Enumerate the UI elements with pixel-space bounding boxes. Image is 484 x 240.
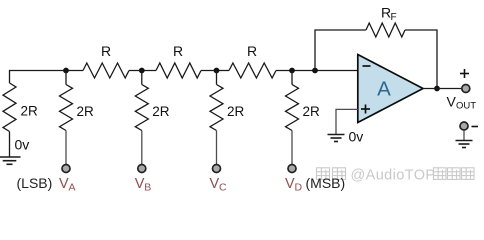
resistor 2R branch D <box>286 71 321 131</box>
ground op-amp 0v <box>328 135 345 142</box>
node C junction <box>214 68 220 74</box>
svg-text:A: A <box>377 77 391 100</box>
terminal VOUT minus <box>460 122 468 130</box>
svg-text:F: F <box>391 12 397 23</box>
svg-text:2R: 2R <box>152 104 170 119</box>
wire rail to op-amp inverting input <box>276 70 358 72</box>
wire 2R to ground <box>9 132 11 157</box>
svg-text:V: V <box>135 176 145 192</box>
resistor R2 <box>156 43 201 78</box>
label VOUT <box>447 94 477 112</box>
svg-text:R: R <box>247 43 257 59</box>
node output junction <box>434 86 440 92</box>
svg-text:V: V <box>447 94 457 110</box>
svg-text:(MSB): (MSB) <box>306 175 346 191</box>
resistor R3 <box>229 43 276 78</box>
svg-text:V: V <box>59 176 69 192</box>
resistor 2R branch C <box>210 71 245 131</box>
label minus output <box>472 126 479 128</box>
resistor 2R branch A <box>60 71 95 131</box>
wire op-amp output <box>423 88 462 90</box>
svg-text:OUT: OUT <box>456 101 476 112</box>
wire rail node A to R2 <box>129 70 156 72</box>
node A junction <box>63 68 69 74</box>
resistor 2R terminating <box>3 83 38 132</box>
svg-text:V: V <box>285 176 295 192</box>
resistor RF <box>366 5 405 38</box>
svg-text:R: R <box>173 43 183 59</box>
svg-text:2R: 2R <box>303 104 321 119</box>
node D junction <box>289 68 295 74</box>
svg-text:D: D <box>295 182 303 194</box>
terminal VD <box>288 165 296 173</box>
wire op-amp + input to ground <box>336 109 358 134</box>
label VC <box>210 176 228 194</box>
wire feedback loop <box>315 30 366 71</box>
terminal VB <box>138 165 146 173</box>
wire feedback to output node <box>405 30 437 89</box>
ground left 0v <box>0 157 21 164</box>
svg-text:2R: 2R <box>21 104 39 119</box>
terminal VOUT plus <box>462 85 470 93</box>
svg-text:0v: 0v <box>349 129 364 145</box>
label VA <box>59 176 76 194</box>
svg-text:A: A <box>69 182 76 194</box>
svg-text:V: V <box>210 176 220 192</box>
svg-text:R: R <box>101 43 111 59</box>
svg-text:C: C <box>219 182 227 194</box>
wire top rail left segment <box>10 71 84 84</box>
terminal VA <box>62 165 70 173</box>
resistor 2R branch B <box>135 71 170 131</box>
watermark zhihu AudioTOP <box>317 168 475 184</box>
wire branch C to terminal <box>216 131 218 165</box>
wire branch A to terminal <box>65 131 67 165</box>
svg-text:@AudioTOP: @AudioTOP <box>351 168 436 184</box>
ground output <box>456 141 473 148</box>
svg-text:B: B <box>144 182 151 194</box>
resistor R1 <box>83 43 129 78</box>
svg-text:2R: 2R <box>227 104 245 119</box>
terminal VC <box>213 165 221 173</box>
wire rail node B to R3 <box>201 70 229 72</box>
label VD <box>285 176 303 194</box>
label VB <box>135 176 152 194</box>
node feedback tap junction <box>312 68 318 74</box>
label plus output <box>460 69 469 78</box>
wire branch D to terminal <box>291 131 293 165</box>
node B junction <box>139 68 145 74</box>
wire VOUT minus to ground <box>463 130 465 140</box>
wire branch B to terminal <box>141 131 143 165</box>
svg-text:(LSB): (LSB) <box>17 175 53 191</box>
op-amp A <box>358 55 423 123</box>
svg-text:2R: 2R <box>77 104 95 119</box>
svg-text:0v: 0v <box>15 137 30 153</box>
